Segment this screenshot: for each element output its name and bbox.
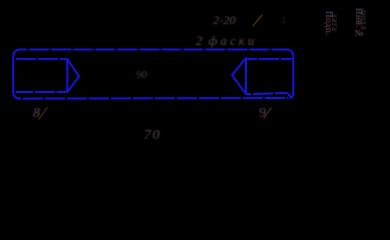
right hole base edge xyxy=(245,58,247,95)
note line 1: 2-20x45 xyxy=(213,13,236,28)
label slash for 9 xyxy=(264,108,272,120)
side column text 2 xyxy=(354,8,364,38)
label slash for 8 xyxy=(39,108,48,120)
left hole base edge xyxy=(66,59,68,92)
right hole top line xyxy=(246,58,292,60)
left drill cone xyxy=(67,59,79,92)
dimension 70 xyxy=(144,128,161,144)
body right cap xyxy=(287,50,293,99)
side column text 1 xyxy=(324,11,334,36)
label 9' (right) xyxy=(259,106,266,122)
colon mark xyxy=(282,14,286,26)
left hole bottom line xyxy=(16,91,68,93)
label 90 (cone angle) xyxy=(136,69,147,81)
rod outline drawing xyxy=(0,0,390,167)
body left cap xyxy=(13,50,20,99)
right drill cone xyxy=(232,58,246,94)
note line 2: 2 chamfers xyxy=(196,34,257,49)
body bottom edge xyxy=(20,97,289,100)
note slash mark xyxy=(253,15,263,27)
right hole chamfer tick xyxy=(287,93,292,98)
right hole bottom line xyxy=(246,93,287,94)
label 8' (left) xyxy=(33,106,40,122)
left hole top line xyxy=(16,58,68,60)
body top edge xyxy=(20,49,287,51)
